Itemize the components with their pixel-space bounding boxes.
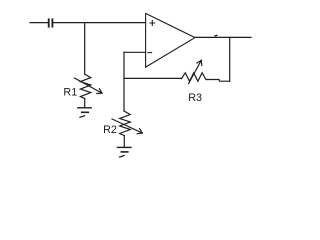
resistor R3 zigzag — [182, 73, 207, 82]
capacitor C1 left plate — [48, 19, 50, 26]
R2 arrow — [112, 119, 142, 133]
resistor R1 zigzag — [80, 74, 90, 99]
wire R3 right to feedback corner — [206, 80, 230, 82]
R1 arrow — [75, 78, 103, 93]
wire feedback vertical — [229, 37, 231, 81]
op-amp plus symbol — [150, 21, 155, 26]
svg-text:R2: R2 — [103, 124, 117, 136]
R3 arrow — [189, 60, 202, 83]
wire capacitor to op-amp plus input — [54, 22, 146, 24]
op-amp U1 triangle — [146, 13, 195, 67]
wire R2 to ground — [123, 136, 125, 148]
wire node A down to R1 — [84, 23, 86, 75]
wire op-amp output — [195, 36, 251, 38]
wire R1 to ground — [84, 99, 86, 108]
svg-text:R1: R1 — [63, 86, 77, 98]
wire minus input — [124, 51, 146, 53]
op-amp minus symbol — [148, 52, 152, 54]
wire input left — [30, 22, 48, 24]
capacitor C1 right plate — [51, 19, 53, 26]
ground below R2 — [118, 146, 132, 148]
junction tick on output wire — [215, 34, 217, 36]
wire minus node down to R2 — [123, 52, 125, 111]
svg-text:R3: R3 — [188, 92, 202, 104]
wire node B to R3 left — [124, 77, 182, 79]
resistor R2 zigzag — [120, 111, 131, 136]
ground below R1 — [78, 107, 91, 109]
